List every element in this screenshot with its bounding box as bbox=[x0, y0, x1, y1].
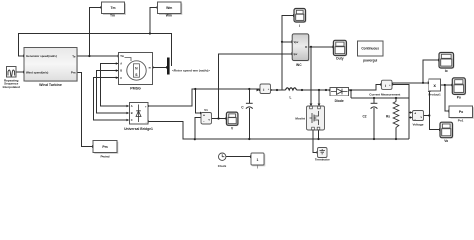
wire: V1 - input to bottom rail bbox=[195, 117, 201, 139]
svg-text:B: B bbox=[131, 111, 133, 115]
wire: DC top rail from i block to diode bbox=[271, 89, 330, 91]
svg-text:powergui: powergui bbox=[363, 58, 377, 62]
wire: MOSFET m output to Terminator bbox=[313, 131, 317, 153]
wire: rotor speed feedback (selector output up and across top) bbox=[19, 34, 172, 67]
svg-text:+: + bbox=[414, 112, 416, 116]
junction: V1 signal branch bbox=[217, 117, 219, 119]
svg-text:Wind speed(m/s): Wind speed(m/s) bbox=[26, 70, 48, 74]
wire: branch up to Tm display bbox=[89, 7, 100, 56]
junction: inductor output node bbox=[301, 89, 303, 91]
svg-text:Vpv: Vpv bbox=[294, 40, 299, 44]
block: Po1 display bbox=[449, 106, 474, 123]
junction: load rail to C2 bbox=[373, 97, 375, 99]
block: Po scope bbox=[452, 78, 466, 100]
svg-text:+: + bbox=[203, 114, 205, 118]
block: Repeating Sequence Interpolated source bbox=[3, 67, 20, 89]
svg-text:Wm: Wm bbox=[166, 6, 172, 10]
arrowheads bbox=[23, 6, 454, 158]
port nubs (electrical terminals) bbox=[116, 62, 413, 122]
load resistor Rs bbox=[386, 102, 399, 128]
wire: drop from diode node to load rail bbox=[350, 90, 352, 98]
svg-text:Vo: Vo bbox=[444, 139, 448, 143]
block: Diode bbox=[330, 87, 349, 103]
junction: load rail to Rs bbox=[395, 97, 397, 99]
junction: Po signal branch bbox=[444, 84, 446, 86]
svg-text:Pwind: Pwind bbox=[100, 154, 109, 158]
svg-text:L: L bbox=[290, 95, 292, 99]
junction: current signal to INC bbox=[281, 41, 283, 43]
svg-text:1: 1 bbox=[257, 158, 259, 162]
wire: PMSG m output to bus selector bbox=[153, 66, 167, 68]
svg-text:Voltage: Voltage bbox=[413, 122, 424, 126]
junction: diode anode node bbox=[325, 89, 327, 91]
junction: Vo signal branch bbox=[428, 114, 430, 116]
wire: Voltage block + input stub bbox=[409, 112, 412, 114]
svg-text:Wind Turbine: Wind Turbine bbox=[39, 83, 62, 87]
wire: current measurement negative side down to voltage tap bbox=[392, 85, 409, 140]
junction: return rail to Rs bbox=[395, 138, 397, 140]
svg-text:Generator speed(rad/s): Generator speed(rad/s) bbox=[26, 54, 57, 58]
wire: MOSFET drain to top rail bbox=[318, 90, 320, 106]
junction: DC+ rail to capacitor C bbox=[248, 88, 250, 90]
wire: V1 + input from top rail bbox=[195, 89, 200, 113]
block: Duty scope bbox=[333, 40, 347, 60]
svg-text:Pm: Pm bbox=[102, 145, 107, 149]
svg-text:Interpolated: Interpolated bbox=[3, 85, 20, 89]
wire: Voltage block - input stub bbox=[409, 117, 412, 119]
wire: Product1 output to Po scope and Po1 display bbox=[441, 85, 452, 111]
block: Voltage measurement (load) bbox=[413, 111, 424, 127]
svg-text:Tm: Tm bbox=[110, 14, 115, 18]
block: Wind Turbine subsystem bbox=[24, 48, 78, 88]
block: Vo scope bbox=[440, 122, 453, 143]
load capacitor C2 bbox=[362, 103, 377, 118]
block: Clock bbox=[218, 153, 227, 168]
wire: current signal to Io scope and Product1 bbox=[392, 60, 438, 83]
svg-text:i: i bbox=[263, 87, 264, 92]
wire: bridge + output to DC top rail bbox=[148, 89, 260, 106]
svg-text:B: B bbox=[120, 69, 122, 73]
wire: PMSG phase B to bridge B bbox=[97, 71, 129, 114]
block: Tm display bbox=[102, 2, 126, 18]
block: Pwind goto bbox=[93, 141, 118, 159]
block: PMSG machine bbox=[119, 53, 153, 91]
svg-text:Terminator: Terminator bbox=[315, 157, 331, 161]
junction: current sense tap bbox=[276, 89, 278, 91]
bus selector bbox=[167, 58, 170, 75]
svg-text:-: - bbox=[415, 117, 416, 121]
wire: Wind Turbine Te output to PMSG Tm input bbox=[77, 55, 117, 57]
block: simulation time display bbox=[251, 153, 265, 169]
svg-text:Diode: Diode bbox=[335, 99, 344, 103]
block: V scope bbox=[226, 112, 238, 130]
junction: rotor speed to Wm display bbox=[149, 32, 151, 34]
svg-text:INC: INC bbox=[296, 63, 302, 67]
svg-text:Po1: Po1 bbox=[458, 118, 464, 122]
junction: MOSFET drain node bbox=[318, 89, 320, 91]
svg-text:Io: Io bbox=[445, 69, 448, 73]
svg-text:Po: Po bbox=[457, 95, 461, 99]
block: I scope bbox=[294, 9, 306, 29]
block: Terminator bbox=[315, 148, 331, 162]
svg-text:Continuous: Continuous bbox=[361, 47, 379, 51]
junction: Io signal branch bbox=[422, 82, 424, 84]
wire: PMSG phase C to bridge C bbox=[93, 78, 128, 120]
wire: voltage signal to Product1 and Vo scope bbox=[424, 92, 440, 130]
svg-text:PMSG: PMSG bbox=[130, 86, 141, 90]
svg-text:Tm: Tm bbox=[110, 6, 115, 10]
svg-text:Po: Po bbox=[459, 110, 463, 114]
svg-text:Clock: Clock bbox=[218, 164, 227, 168]
junction: return rail to C2 bbox=[373, 138, 375, 140]
svg-text:Rs: Rs bbox=[386, 115, 390, 119]
wire: Wind Turbine Pm output to Pwind goto bbox=[77, 72, 92, 146]
wire: current signal to INC Ipv and I scope bbox=[282, 16, 293, 91]
junction: duty signal branch bbox=[310, 46, 312, 48]
svg-text:Pm: Pm bbox=[71, 71, 76, 75]
svg-text:Wm: Wm bbox=[166, 14, 172, 18]
block: V1 voltage measurement bbox=[201, 108, 212, 124]
wire: PMSG phase A to bridge A bbox=[100, 63, 128, 106]
wire: diode output to load node and current measurement bbox=[349, 85, 381, 91]
wire: load capacitor C2 branches bbox=[373, 98, 375, 139]
wire: DC link capacitor C branches bbox=[248, 89, 250, 139]
svg-text:I: I bbox=[299, 24, 300, 28]
block: Mosfet switch bbox=[295, 106, 324, 130]
block: Current Measurement (output) bbox=[369, 80, 400, 96]
svg-text:Ipv: Ipv bbox=[294, 52, 298, 56]
wire: load top rail bbox=[351, 97, 409, 99]
block: Universal Bridge1 rectifier bbox=[124, 102, 153, 131]
junction: Te to Tm display bbox=[88, 55, 90, 57]
svg-text:Duty: Duty bbox=[336, 57, 343, 61]
inductor L bbox=[286, 88, 297, 100]
capacitor C (DC link) bbox=[241, 103, 253, 109]
svg-text:Product1: Product1 bbox=[429, 92, 442, 96]
wire: branch up to Wm display bbox=[150, 8, 157, 34]
wire: Repeating Sequence to Wind Turbine wind speed input bbox=[16, 71, 23, 73]
block: INC MPPT controller bbox=[292, 34, 309, 67]
svg-text:x: x bbox=[433, 83, 436, 88]
svg-text:V1: V1 bbox=[204, 108, 208, 112]
junction: diode cathode to load bbox=[350, 89, 352, 91]
svg-text:C: C bbox=[120, 76, 122, 80]
svg-text:Universal Bridge1: Universal Bridge1 bbox=[124, 127, 153, 131]
junction: return rail to V1- bbox=[194, 138, 196, 140]
wire: bottom return rail from bridge - output bbox=[148, 121, 409, 139]
block: powergui bbox=[358, 41, 384, 62]
wire: INC duty output to Duty scope and MOSFET gate bbox=[309, 47, 333, 106]
svg-text:Te: Te bbox=[72, 54, 76, 58]
svg-text:C: C bbox=[131, 118, 133, 122]
wire: load resistor Rs branches bbox=[395, 98, 397, 139]
svg-text:D: D bbox=[305, 45, 307, 49]
junction: return rail to MOSFET source bbox=[317, 138, 319, 140]
wire: Clock to time display bbox=[226, 156, 250, 158]
svg-text:A: A bbox=[120, 62, 122, 66]
block: Io scope bbox=[439, 53, 454, 74]
svg-text:<Rotor speed wm (rad/s)>: <Rotor speed wm (rad/s)> bbox=[172, 69, 210, 73]
junction: return rail to capacitor C bbox=[248, 138, 250, 140]
wire: MOSFET source to bottom rail bbox=[318, 131, 320, 140]
svg-text:A: A bbox=[131, 104, 133, 108]
block: Product1 multiplier bbox=[429, 79, 442, 96]
svg-text:Mosfet: Mosfet bbox=[295, 117, 305, 121]
block: i current measurement (series) bbox=[260, 84, 271, 94]
svg-text:C2: C2 bbox=[362, 115, 366, 119]
svg-text:i: i bbox=[385, 84, 386, 88]
svg-text:-: - bbox=[146, 120, 147, 124]
junction: DC+ rail to V1+ bbox=[194, 88, 196, 90]
block: Wm display bbox=[158, 2, 183, 18]
wire: V1 voltage signal to V scope and INC Vpv bbox=[212, 54, 292, 119]
svg-text:Current Measurement: Current Measurement bbox=[369, 92, 400, 96]
